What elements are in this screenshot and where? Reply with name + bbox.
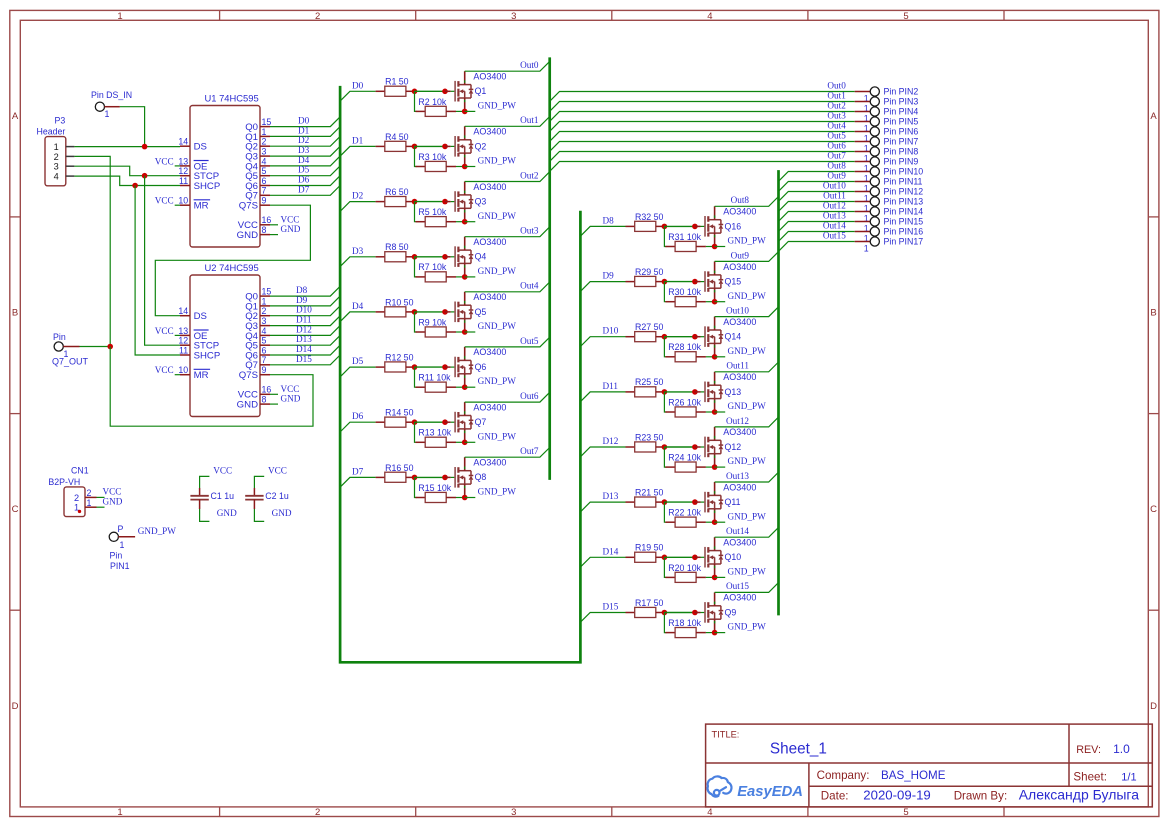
drain tap xyxy=(708,605,721,607)
wire Out1 to bus xyxy=(465,117,550,127)
svg-text:Q3: Q3 xyxy=(475,197,487,207)
body diode xyxy=(720,551,722,556)
net label GND_PW xyxy=(715,246,726,248)
wire Out4 to PIN6 xyxy=(550,132,855,142)
svg-text:AO3400: AO3400 xyxy=(473,402,506,412)
pulldown resistor R11 10k xyxy=(415,367,417,387)
svg-text:R28 10k: R28 10k xyxy=(668,342,701,352)
net label GND_PW xyxy=(715,521,726,523)
body arrow xyxy=(709,500,713,504)
svg-text:AO3400: AO3400 xyxy=(723,427,756,437)
stage Q5: bus exit + wire D4 xyxy=(340,312,376,322)
svg-text:GND: GND xyxy=(237,400,258,411)
gate bar xyxy=(454,81,456,102)
svg-text:Out3: Out3 xyxy=(827,110,846,120)
svg-text:D11: D11 xyxy=(603,381,619,391)
svg-text:TITLE:: TITLE: xyxy=(712,730,740,740)
wire D4 from U1.Q4 xyxy=(270,156,340,166)
wire Out12 to bus xyxy=(715,417,779,427)
svg-text:AO3400: AO3400 xyxy=(723,482,756,492)
svg-text:13: 13 xyxy=(178,156,188,166)
svg-text:R6 50: R6 50 xyxy=(385,187,409,197)
capacitor C2 1u xyxy=(254,476,264,488)
title block xyxy=(706,724,1153,807)
wire STCP chain to U2.STCP xyxy=(145,176,180,346)
svg-text:1: 1 xyxy=(262,127,267,137)
wire D7 from U1.Q7 xyxy=(270,186,340,196)
svg-text:Out2: Out2 xyxy=(827,100,846,110)
svg-text:Q11: Q11 xyxy=(725,497,741,507)
drain tap xyxy=(458,359,471,361)
svg-text:4: 4 xyxy=(262,326,267,336)
pin end ticks xyxy=(714,326,716,328)
svg-text:R25 50: R25 50 xyxy=(635,377,663,387)
source tap xyxy=(708,232,721,234)
pin end ticks xyxy=(714,491,716,493)
svg-text:Pin PIN3: Pin PIN3 xyxy=(884,96,919,106)
stage Q2: bus exit + wire D1 xyxy=(340,146,376,156)
U1 pin 11 SHCP xyxy=(180,185,190,187)
gate bar xyxy=(454,302,456,323)
svg-text:Q1: Q1 xyxy=(475,86,487,96)
svg-text:AO3400: AO3400 xyxy=(473,127,506,137)
svg-text:D12: D12 xyxy=(603,436,619,446)
svg-text:C: C xyxy=(12,504,19,515)
wire Out9 to PIN11 xyxy=(779,182,855,192)
svg-text:R2 10k: R2 10k xyxy=(418,97,446,107)
wire D15 from U2.Q7 xyxy=(270,355,340,365)
svg-text:AO3400: AO3400 xyxy=(723,538,756,548)
svg-text:10: 10 xyxy=(178,365,188,375)
U1 pin 5 Q5 xyxy=(260,175,270,177)
svg-text:Q13: Q13 xyxy=(725,387,742,397)
wire Out7 to bus xyxy=(465,448,550,458)
gate bar xyxy=(704,492,706,513)
pin end ticks xyxy=(714,546,716,548)
svg-text:VCC: VCC xyxy=(155,365,174,375)
svg-text:GND: GND xyxy=(103,496,123,506)
net label GND_PW xyxy=(465,110,476,112)
drain tap xyxy=(708,494,721,496)
svg-text:Q7S: Q7S xyxy=(239,201,258,212)
pulldown resistor R28 10k xyxy=(664,337,666,357)
wire Out3 to PIN5 xyxy=(550,122,855,132)
svg-text:Pin PIN15: Pin PIN15 xyxy=(884,216,924,226)
svg-text:D7: D7 xyxy=(298,184,310,194)
U1 pin 7 Q7 xyxy=(260,194,270,196)
svg-text:Q14: Q14 xyxy=(725,332,742,342)
svg-text:D5: D5 xyxy=(298,165,310,175)
junction source node xyxy=(462,219,468,225)
stage Q8: bus exit + wire D7 xyxy=(340,477,376,487)
junction source node xyxy=(712,409,718,415)
wire D10 from U2.Q2 xyxy=(270,306,340,316)
body arrow xyxy=(459,365,463,369)
svg-text:GND_PW: GND_PW xyxy=(478,376,517,386)
P3 pin 1 xyxy=(66,146,75,148)
svg-text:Out0: Out0 xyxy=(827,80,846,90)
wire Out2 to bus xyxy=(465,172,550,182)
svg-text:5: 5 xyxy=(903,11,908,22)
svg-text:D12: D12 xyxy=(296,324,312,334)
pin PIN9 xyxy=(870,157,879,166)
body arrow xyxy=(709,335,713,339)
net label GND_PW xyxy=(465,276,476,278)
svg-text:P3: P3 xyxy=(55,116,66,126)
svg-text:GND: GND xyxy=(217,508,237,518)
pulldown resistor R7 10k xyxy=(415,257,417,277)
channel dashes xyxy=(707,327,709,333)
IC U2 74HC595 body xyxy=(190,275,260,417)
channel dashes xyxy=(707,216,709,222)
svg-text:VCC: VCC xyxy=(155,156,174,166)
svg-text:Александр Булыга: Александр Булыга xyxy=(1019,786,1140,802)
wire D2 from U1.Q2 xyxy=(270,136,340,146)
pin PIN3 xyxy=(870,97,879,106)
junction gate node a xyxy=(412,144,418,150)
svg-text:R15 10k: R15 10k xyxy=(418,483,451,493)
body diode xyxy=(470,250,472,255)
svg-text:2: 2 xyxy=(315,11,320,22)
channel dashes xyxy=(457,136,459,142)
drain tap xyxy=(458,194,471,196)
svg-text:Out11: Out11 xyxy=(823,190,846,200)
svg-text:1: 1 xyxy=(262,296,267,306)
svg-text:R29 50: R29 50 xyxy=(635,267,663,277)
svg-text:D6: D6 xyxy=(352,411,364,421)
svg-text:9: 9 xyxy=(262,196,267,206)
svg-text:VCC: VCC xyxy=(281,384,300,394)
junction source node xyxy=(712,354,718,360)
wire Out14 to bus xyxy=(715,527,779,537)
U2 pin 9 Q7S xyxy=(260,374,270,376)
svg-text:Out10: Out10 xyxy=(726,306,749,316)
svg-text:Out4: Out4 xyxy=(520,281,539,291)
svg-text:Q12: Q12 xyxy=(725,442,742,452)
ruler ticks bottom xyxy=(219,807,221,817)
wire P3.2 down to Q7_OUT node xyxy=(74,156,110,346)
stage Q4: bus exit + wire D3 xyxy=(340,257,376,267)
svg-text:5: 5 xyxy=(262,166,267,176)
svg-text:Sheet_1: Sheet_1 xyxy=(770,740,827,757)
svg-text:GND_PW: GND_PW xyxy=(728,291,767,301)
svg-text:SHCP: SHCP xyxy=(194,181,221,192)
VCC net label at U1 left pin xyxy=(175,165,180,167)
drain tap xyxy=(458,304,471,306)
svg-text:14: 14 xyxy=(178,306,188,316)
pin end ticks xyxy=(714,436,716,438)
body diode xyxy=(720,330,722,335)
gate bar xyxy=(454,412,456,433)
body arrow xyxy=(459,255,463,259)
wire Out15 to bus xyxy=(715,583,779,593)
pin PIN17 xyxy=(870,237,879,246)
svg-text:GND_PW: GND_PW xyxy=(478,211,517,221)
svg-text:2020-09-19: 2020-09-19 xyxy=(863,787,930,802)
CN1 pin 1 xyxy=(85,506,97,508)
wire Out8 to bus xyxy=(715,197,779,207)
svg-text:GND: GND xyxy=(237,230,258,241)
channel dashes xyxy=(707,492,709,498)
svg-text:Company:: Company: xyxy=(817,769,870,782)
svg-text:R7 10k: R7 10k xyxy=(418,262,446,272)
svg-text:3: 3 xyxy=(262,316,267,326)
svg-text:Header: Header xyxy=(37,126,66,136)
svg-text:Out14: Out14 xyxy=(823,220,846,230)
junction gate node b xyxy=(442,309,448,315)
svg-text:D14: D14 xyxy=(296,344,312,354)
svg-text:3: 3 xyxy=(54,162,59,172)
body diode xyxy=(470,360,472,365)
body diode xyxy=(720,440,722,445)
svg-text:8: 8 xyxy=(262,225,267,235)
source tap xyxy=(458,97,471,99)
P3 pin 4 xyxy=(66,175,75,177)
U2 pin 6 Q6 xyxy=(260,354,270,356)
svg-text:D0: D0 xyxy=(298,116,310,126)
net label GND_PW xyxy=(465,386,476,388)
svg-text:Out5: Out5 xyxy=(520,336,539,346)
wire Out6 to PIN8 xyxy=(550,152,855,162)
svg-text:D2: D2 xyxy=(298,135,310,145)
svg-text:DS: DS xyxy=(194,311,207,322)
source tap xyxy=(458,373,471,375)
svg-text:2: 2 xyxy=(87,488,92,498)
pin PIN14 xyxy=(870,207,879,216)
svg-text:D15: D15 xyxy=(296,354,312,364)
junction gate node b xyxy=(442,144,448,150)
svg-text:Sheet:: Sheet: xyxy=(1073,770,1107,783)
svg-text:Out0: Out0 xyxy=(520,60,539,70)
U2 pin 15 Q0 xyxy=(260,295,270,297)
U1 pin 10 MR xyxy=(180,204,190,206)
pin PIN12 xyxy=(870,187,879,196)
junction gate node b xyxy=(692,334,698,340)
svg-text:GND_PW: GND_PW xyxy=(728,236,767,246)
pulldown resistor R24 10k xyxy=(664,447,666,467)
svg-text:VCC: VCC xyxy=(213,466,232,476)
body diode xyxy=(470,140,472,145)
drain tap xyxy=(708,384,721,386)
net label VCC at U1 power pin xyxy=(270,224,278,226)
wire D11 from U2.Q3 xyxy=(270,316,340,326)
junction gate node a xyxy=(662,279,668,285)
junction gate node a xyxy=(662,444,668,450)
net label GND_PW xyxy=(715,411,726,413)
body arrow xyxy=(709,610,713,614)
junction source node xyxy=(462,384,468,390)
junction gate node b xyxy=(692,610,698,616)
svg-text:GND_PW: GND_PW xyxy=(138,526,177,536)
junction gate node b xyxy=(692,555,698,561)
stage Q15: bus exit + wire D9 xyxy=(580,282,625,292)
svg-text:AO3400: AO3400 xyxy=(473,182,506,192)
svg-text:Out13: Out13 xyxy=(726,471,749,481)
channel dashes xyxy=(707,602,709,608)
source tap xyxy=(458,262,471,264)
channel dashes xyxy=(457,81,459,87)
pulldown resistor R20 10k xyxy=(664,557,666,577)
svg-text:AO3400: AO3400 xyxy=(723,262,756,272)
wire D9 from U2.Q1 xyxy=(270,296,340,306)
pin end ticks xyxy=(464,191,466,193)
svg-text:Out15: Out15 xyxy=(726,581,749,591)
net label GND at U2 power pin xyxy=(270,403,278,405)
svg-text:10: 10 xyxy=(178,196,188,206)
wire Out2 to PIN4 xyxy=(550,112,855,122)
body arrow xyxy=(709,390,713,394)
svg-text:Q9: Q9 xyxy=(725,607,737,617)
junction gate node b xyxy=(692,444,698,450)
svg-text:2: 2 xyxy=(262,137,267,147)
svg-text:Pin DS_IN: Pin DS_IN xyxy=(91,90,132,100)
U1 pin 1 Q1 xyxy=(260,135,270,137)
source tap xyxy=(708,342,721,344)
U2 pin 4 Q4 xyxy=(260,334,270,336)
svg-text:Q7_OUT: Q7_OUT xyxy=(52,356,89,366)
svg-text:R18 10k: R18 10k xyxy=(668,618,701,628)
svg-text:2: 2 xyxy=(262,306,267,316)
svg-text:R9 10k: R9 10k xyxy=(418,317,446,327)
svg-text:1: 1 xyxy=(120,540,125,550)
svg-text:Pin PIN8: Pin PIN8 xyxy=(884,146,919,156)
gate bar xyxy=(704,326,706,347)
junction DS node xyxy=(142,144,148,150)
wire Q7_OUT node to U2.Q7S xyxy=(110,347,313,427)
svg-text:D4: D4 xyxy=(352,301,364,311)
svg-text:DS: DS xyxy=(194,142,207,153)
svg-text:VCC: VCC xyxy=(268,466,287,476)
source tap xyxy=(458,483,471,485)
drain tap xyxy=(458,249,471,251)
body diode xyxy=(470,471,472,476)
net label GND_PW xyxy=(715,632,726,634)
svg-text:R8 50: R8 50 xyxy=(385,242,409,252)
svg-text:Drawn By:: Drawn By: xyxy=(954,789,1007,802)
junction source node xyxy=(712,519,718,525)
svg-text:1: 1 xyxy=(117,11,122,22)
svg-text:Pin PIN13: Pin PIN13 xyxy=(884,196,924,206)
svg-text:Q8: Q8 xyxy=(475,472,487,482)
P3 pin 2 xyxy=(66,155,75,157)
gate bar xyxy=(454,467,456,488)
svg-text:Date:: Date: xyxy=(821,789,849,802)
svg-text:GND: GND xyxy=(281,394,301,404)
wire Out9 to bus xyxy=(715,252,779,262)
wire Out4 to bus xyxy=(465,282,550,292)
svg-text:D4: D4 xyxy=(298,155,310,165)
net label GND_PW xyxy=(465,441,476,443)
svg-text:C1 1u: C1 1u xyxy=(211,491,235,501)
body arrow xyxy=(459,420,463,424)
svg-text:R24 10k: R24 10k xyxy=(668,453,701,463)
svg-text:2: 2 xyxy=(74,493,79,503)
drain tap xyxy=(708,219,721,221)
gate bar xyxy=(704,271,706,292)
VCC net label at U2 left pin xyxy=(175,334,180,336)
svg-text:D13: D13 xyxy=(603,491,619,501)
svg-text:R26 10k: R26 10k xyxy=(668,397,701,407)
drain tap xyxy=(458,139,471,141)
pin end ticks xyxy=(464,411,466,413)
pulldown resistor R26 10k xyxy=(664,392,666,412)
pulldown resistor R22 10k xyxy=(664,502,666,522)
drain tap xyxy=(458,415,471,417)
wire D14 from U2.Q6 xyxy=(270,345,340,355)
body diode xyxy=(720,495,722,500)
svg-text:4: 4 xyxy=(262,156,267,166)
U2 pin 11 SHCP xyxy=(180,354,190,356)
svg-text:4: 4 xyxy=(54,172,59,182)
svg-text:Pin PIN6: Pin PIN6 xyxy=(884,126,919,136)
wire Out3 to bus xyxy=(465,227,550,237)
pin end ticks xyxy=(714,381,716,383)
svg-text:R17 50: R17 50 xyxy=(635,598,663,608)
pin PIN10 xyxy=(870,167,879,176)
wire Out7 to PIN9 xyxy=(550,162,855,172)
wire Out12 to PIN14 xyxy=(779,212,855,222)
junction gate node a xyxy=(412,309,418,315)
wire SHCP chain to U2.SHCP xyxy=(135,186,180,356)
svg-text:R10 50: R10 50 xyxy=(385,297,413,307)
body arrow xyxy=(709,555,713,559)
svg-text:2: 2 xyxy=(315,807,320,818)
svg-text:AO3400: AO3400 xyxy=(473,458,506,468)
svg-text:GND_PW: GND_PW xyxy=(728,456,767,466)
junction gate node b xyxy=(442,419,448,425)
U1 pin 8 GND xyxy=(260,234,270,236)
svg-text:U1 74HC595: U1 74HC595 xyxy=(205,92,259,103)
drain tap xyxy=(458,84,471,86)
junction source node xyxy=(462,164,468,170)
svg-text:Out9: Out9 xyxy=(731,250,750,260)
svg-text:Out12: Out12 xyxy=(726,416,749,426)
wire U1.Q7S to U2.DS xyxy=(155,205,310,316)
svg-text:Q10: Q10 xyxy=(725,552,742,562)
ruler ticks right xyxy=(1148,216,1159,218)
channel dashes xyxy=(457,191,459,197)
junction gate node a xyxy=(412,254,418,260)
svg-text:Out4: Out4 xyxy=(827,120,846,130)
svg-text:AO3400: AO3400 xyxy=(723,207,756,217)
U1 pin 3 Q3 xyxy=(260,155,270,157)
svg-text:D13: D13 xyxy=(296,334,312,344)
svg-text:Pin: Pin xyxy=(53,332,66,342)
body diode xyxy=(720,275,722,280)
svg-text:Q4: Q4 xyxy=(475,252,487,262)
source tap xyxy=(708,508,721,510)
svg-text:R13 10k: R13 10k xyxy=(418,428,451,438)
pulldown resistor R5 10k xyxy=(415,202,417,222)
svg-text:R4 50: R4 50 xyxy=(385,132,409,142)
junction gate node b xyxy=(692,224,698,230)
svg-text:D3: D3 xyxy=(298,145,310,155)
svg-text:A: A xyxy=(12,111,19,122)
pin PIN15 xyxy=(870,217,879,226)
wire Out5 to bus xyxy=(465,337,550,347)
svg-text:16: 16 xyxy=(262,385,272,395)
pulldown resistor R13 10k xyxy=(415,422,417,442)
svg-text:D1: D1 xyxy=(298,125,310,135)
svg-text:D10: D10 xyxy=(603,326,619,336)
U2 pin 1 Q1 xyxy=(260,305,270,307)
svg-text:1: 1 xyxy=(87,498,92,508)
junction gate node a xyxy=(412,419,418,425)
svg-text:R27 50: R27 50 xyxy=(635,322,663,332)
svg-text:6: 6 xyxy=(262,345,267,355)
gate bar xyxy=(454,357,456,378)
svg-text:PIN1: PIN1 xyxy=(110,561,130,571)
